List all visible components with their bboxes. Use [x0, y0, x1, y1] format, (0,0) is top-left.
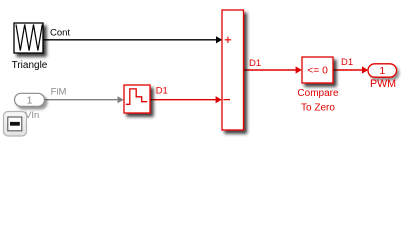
svg-text:1: 1	[379, 65, 385, 77]
svg-text:Triangle: Triangle	[12, 60, 48, 71]
svg-text:PWM: PWM	[370, 78, 396, 90]
svg-text:1: 1	[27, 95, 33, 107]
svg-text:Cont: Cont	[50, 28, 70, 39]
svg-text:Compare: Compare	[297, 88, 339, 99]
svg-text:<= 0: <= 0	[307, 66, 328, 77]
svg-text:D1: D1	[249, 58, 261, 69]
svg-text:FiM: FiM	[51, 86, 67, 97]
svg-text:D1: D1	[341, 57, 353, 68]
svg-text:D1: D1	[156, 86, 168, 97]
svg-text:To Zero: To Zero	[301, 103, 335, 114]
svg-text:VIn: VIn	[25, 110, 39, 121]
